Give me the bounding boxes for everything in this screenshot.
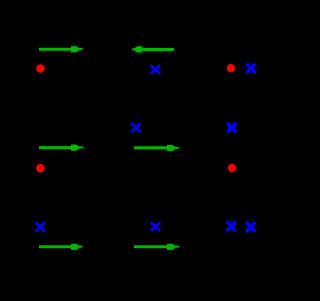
field into-page cross X2 (top-far-right): [248, 65, 255, 72]
field into-page cross X4 (middle-right): [228, 124, 235, 131]
current arrow I3 (center-left, pointing right): [39, 145, 84, 151]
field into-page cross X7 (bottom-right): [228, 223, 235, 230]
current arrow I6 (bottom-middle, pointing right): [134, 244, 179, 250]
field out-of-page dot B3 (center-left): [36, 164, 45, 173]
current arrow I2 (top-middle, pointing left): [132, 46, 174, 52]
field into-page cross X8 (bottom-far-right): [247, 223, 254, 230]
field into-page cross X3 (middle-left): [131, 123, 140, 132]
field out-of-page dot B1 (top-left): [36, 64, 45, 73]
field into-page cross X6 (bottom-middle): [151, 222, 160, 231]
current arrow I4 (center-middle, pointing right): [134, 145, 179, 151]
field out-of-page dot B2 (top-right): [227, 64, 235, 72]
field out-of-page dot B4 (center-right): [228, 164, 236, 172]
current arrow I1 (top-left, pointing right): [39, 46, 83, 52]
field into-page cross X5 (bottom-left): [36, 222, 45, 231]
field into-page cross X1 (top-middle): [151, 65, 160, 74]
current arrow I5 (bottom-left, pointing right): [39, 244, 83, 250]
